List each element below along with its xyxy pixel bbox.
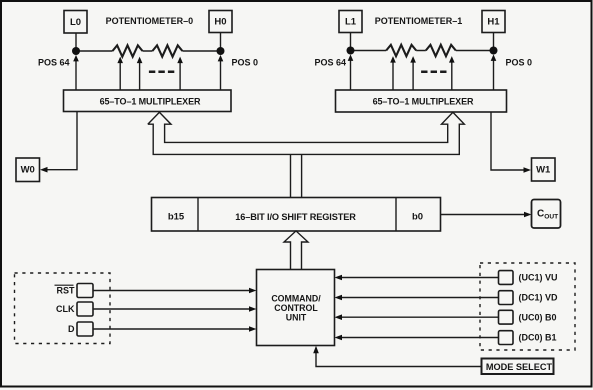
pin DC1 pad [499, 291, 514, 305]
wire L0 to node POS64 [75, 33, 77, 51]
tap wire pot0 pos0 [218, 55, 224, 90]
svg-text:W0: W0 [21, 165, 35, 176]
wire CLK to CCU [93, 306, 257, 312]
command/control unit block [257, 270, 335, 346]
tap wire pot1 b [410, 56, 416, 90]
svg-text:MODE SELECT: MODE SELECT [486, 362, 553, 372]
pin RST overline [55, 284, 74, 286]
node POS 0 pot0 [217, 47, 225, 55]
node POS 64 pot0 [72, 47, 80, 55]
svg-text:POTENTIOMETER–0: POTENTIOMETER–0 [106, 16, 194, 26]
svg-text:D: D [68, 324, 75, 334]
svg-text:COMMAND/: COMMAND/ [271, 293, 321, 303]
terminal L1 [339, 11, 362, 33]
svg-text:RST: RST [57, 286, 76, 296]
tap wire pot0 b [137, 57, 143, 90]
node POS 64 pot1 [347, 47, 355, 55]
svg-text:POS 64: POS 64 [314, 58, 346, 68]
tap wire pot1 c [449, 56, 455, 90]
terminal COUT [532, 200, 561, 229]
svg-text:CLK: CLK [56, 304, 75, 314]
svg-text:CONTROL: CONTROL [274, 303, 318, 313]
svg-text:(DC1) VD: (DC1) VD [519, 293, 559, 303]
svg-text:POTENTIOMETER–1: POTENTIOMETER–1 [375, 16, 463, 26]
wire MUX1 to W1 [491, 112, 531, 173]
tap wire pot1 a [390, 56, 396, 90]
wire MUX0 to W0 [40, 112, 77, 173]
svg-text:W1: W1 [536, 165, 551, 176]
svg-text:L0: L0 [70, 17, 81, 28]
terminal H0 [209, 11, 232, 33]
svg-text:(UC1) VU: (UC1) VU [519, 273, 558, 283]
wire pot0 resistor string top rail [76, 50, 221, 52]
terminal L0 [64, 11, 87, 34]
svg-text:POS 0: POS 0 [506, 58, 533, 68]
wire DC1 to CCU [335, 295, 499, 301]
resistor pot1 left segment [386, 45, 416, 56]
resistor pot0 left segment [113, 45, 143, 56]
mode select box [482, 359, 554, 375]
bus command/control unit to shift register (hollow arrow) [284, 231, 308, 270]
multiplexer MUX0 [64, 90, 232, 112]
terminal H1 [482, 11, 505, 33]
wire UC1 to CCU [335, 275, 499, 281]
shift register cell divider b0 [395, 198, 397, 232]
pin UC0 pad [499, 310, 514, 324]
wire mode select to CCU [313, 346, 481, 367]
bus shift register to both multiplexers (hollow fork arrows) [148, 112, 465, 197]
tap wire pot1 pos64 [348, 54, 354, 90]
tap wire pot1 pos0 [491, 54, 497, 90]
svg-text:(UC0) B0: (UC0) B0 [519, 312, 557, 322]
svg-text:b15: b15 [168, 212, 185, 223]
svg-text:b0: b0 [412, 212, 423, 223]
terminal W0 [16, 158, 40, 182]
pin CLK pad [77, 302, 93, 316]
svg-text:H1: H1 [487, 17, 500, 28]
node POS 0 pot1 [490, 47, 498, 55]
wire H0 to node POS0 [220, 33, 222, 52]
shift register cell divider b15 [197, 198, 199, 232]
wire pot1 resistor string top rail [351, 50, 494, 52]
tap wire pot0 pos64 [73, 55, 79, 90]
wire L1 to node POS64 [350, 33, 352, 51]
wire D to CCU [93, 326, 257, 332]
tap wire pot0 c [177, 57, 183, 90]
ellipsis dashes pot1 [421, 71, 447, 74]
resistor pot1 right segment [426, 45, 456, 56]
svg-text:POS 0: POS 0 [232, 58, 259, 68]
svg-text:H0: H0 [214, 17, 226, 28]
svg-text:16–BIT I/O SHIFT REGISTER: 16–BIT I/O SHIFT REGISTER [235, 212, 356, 222]
wire DC0 to CCU [335, 335, 499, 341]
pin UC1 pad [499, 271, 514, 285]
resistor pot0 right segment [152, 45, 182, 56]
wire RST to CCU [93, 288, 257, 294]
tap wire pot0 a [117, 57, 123, 90]
pin RST pad [77, 284, 93, 298]
pin D pad [77, 322, 93, 336]
wire UC0 to CCU [335, 314, 499, 320]
svg-text:65–TO–1 MULTIPLEXER: 65–TO–1 MULTIPLEXER [100, 96, 201, 106]
multiplexer MUX1 [336, 90, 507, 112]
pin DC0 pad [499, 331, 514, 345]
counter control group (dashed) [480, 263, 575, 350]
svg-text:L1: L1 [345, 17, 357, 28]
svg-text:UNIT: UNIT [286, 313, 307, 323]
svg-text:POS 64: POS 64 [38, 58, 70, 68]
svg-text:65–TO–1 MULTIPLEXER: 65–TO–1 MULTIPLEXER [373, 96, 474, 106]
terminal W1 [532, 158, 556, 181]
wire shift register to COUT [441, 212, 532, 218]
svg-text:(DC0) B1: (DC0) B1 [519, 333, 557, 343]
shift register block [152, 198, 441, 232]
wire H1 to node POS0 [493, 33, 495, 51]
serial interface group (dashed) [15, 273, 111, 344]
ellipsis dashes pot0 [149, 71, 175, 74]
